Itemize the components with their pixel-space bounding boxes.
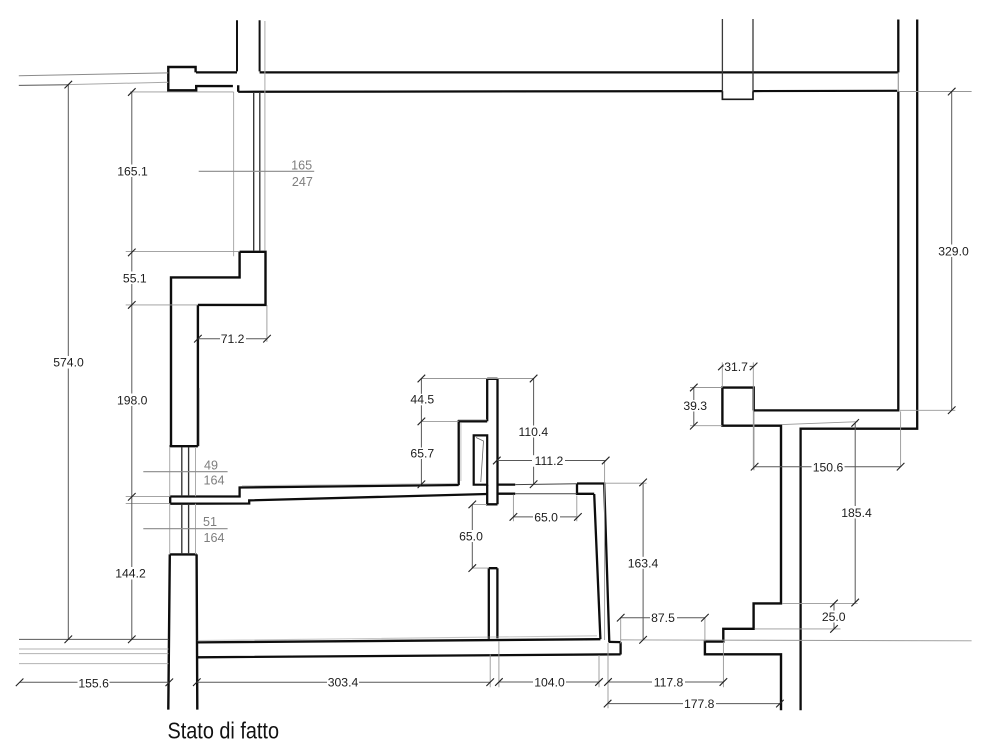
- extension lines: 44.5 110.4 top: [421, 379, 533, 422]
- svg-text:111.2: 111.2: [535, 454, 564, 468]
- extension lines: 31.7: [722, 362, 753, 469]
- party wall line upper: [19, 73, 169, 76]
- svg-text:55.1: 55.1: [123, 271, 147, 285]
- dim 65.0 upper: [513, 516, 578, 518]
- wall: chimney flue left of top wall: [237, 20, 260, 71]
- wall: top-right pillar jambs: [722, 19, 753, 91]
- dim 25.0: [833, 604, 835, 629]
- svg-text:165.1: 165.1: [117, 164, 148, 178]
- svg-text:164: 164: [203, 531, 224, 545]
- text 165.1: [117, 165, 148, 178]
- svg-text:65.0: 65.0: [534, 511, 558, 525]
- wall: spine wall right of cross with door opening: [498, 484, 606, 494]
- long reference line right: [621, 639, 972, 642]
- wall shadow echoes: [198, 388, 598, 641]
- dim 303.4 104.0 117.8: [197, 681, 724, 683]
- wall: top outer edge: [196, 71, 899, 73]
- wall: lower door stub: [489, 568, 498, 639]
- wall: interior spine wall left portion: [170, 485, 487, 504]
- text 329.0: [938, 245, 970, 258]
- wall: right inner face: [754, 20, 899, 411]
- svg-text:117.8: 117.8: [654, 675, 684, 689]
- fraction bar 51/164: [143, 528, 227, 530]
- extension lines: 71.2 right: [266, 305, 268, 342]
- svg-text:329.0: 329.0: [938, 244, 969, 258]
- wall: top-right pillar notch: [722, 91, 753, 99]
- text 44.5: [410, 394, 435, 406]
- text 163.4: [627, 557, 659, 569]
- svg-text:49: 49: [204, 459, 218, 473]
- wall: spine wall step up to closet: [459, 421, 488, 485]
- dim 31.7: [722, 365, 754, 367]
- svg-text:150.6: 150.6: [813, 461, 844, 475]
- dim left chain 165.1/55.1/198.0/144.2: [131, 92, 133, 639]
- text 144.2: [115, 567, 146, 580]
- wall: left wall upper step block: [170, 252, 266, 446]
- dim 329.0: [951, 92, 953, 411]
- svg-text:87.5: 87.5: [651, 611, 675, 625]
- wall: left wall lower block: [168, 554, 197, 709]
- svg-text:71.2: 71.2: [221, 332, 245, 346]
- party wall line lower light segment: [68, 82, 168, 84]
- extension lines: 25.0 and 185.4: [755, 422, 858, 629]
- door threshold: thin lines across opening: [515, 484, 577, 494]
- dim 177.8: [608, 703, 780, 705]
- svg-text:65.0: 65.0: [459, 530, 483, 544]
- extension lines: 111.2 and right room: [604, 461, 606, 641]
- dim 185.4: [854, 423, 856, 603]
- window 51/164 glazing: [182, 504, 189, 554]
- text 303.4: [327, 676, 359, 689]
- party wall line lower dark segment: [19, 84, 69, 87]
- dim 44.5/65.7 chain: [420, 379, 422, 485]
- extension lines: bottom dims: [490, 642, 723, 709]
- text 104.0: [533, 676, 566, 689]
- svg-text:25.0: 25.0: [822, 610, 846, 624]
- door leaf: closet door rectangle: [474, 435, 488, 484]
- text 65.7: [410, 448, 435, 460]
- text 65.0 left: [458, 530, 485, 542]
- svg-text:247: 247: [292, 175, 313, 189]
- text 71.2: [220, 333, 246, 345]
- svg-text:177.8: 177.8: [684, 697, 715, 711]
- wall: top-left pillar: [168, 67, 238, 92]
- svg-text:31.7: 31.7: [724, 360, 748, 374]
- text 39.3: [682, 400, 708, 412]
- dim 65.0 left vertical: [471, 504, 473, 568]
- dimension chain bottom reference line: [19, 638, 168, 640]
- extension lines: 163.4 top: [606, 482, 647, 484]
- extension lines: 329.0: [899, 92, 972, 411]
- ground reference lines bottom left: [19, 649, 168, 664]
- window jambs: thin gray faces: [170, 21, 265, 554]
- window 49/164 glazing: [182, 447, 189, 496]
- svg-text:110.4: 110.4: [519, 425, 549, 439]
- wall: right-mid pillar and stepped lower wall: [705, 388, 781, 711]
- tick marks: [16, 81, 956, 708]
- svg-text:198.0: 198.0: [117, 393, 148, 407]
- wall: bottom band: [197, 639, 621, 657]
- dim 163.4: [642, 482, 644, 639]
- text 117.8: [652, 676, 685, 689]
- text 198.0: [117, 394, 148, 407]
- svg-text:104.0: 104.0: [534, 675, 565, 689]
- svg-text:65.7: 65.7: [410, 446, 434, 460]
- wall: right outer face: [801, 20, 918, 711]
- svg-text:163.4: 163.4: [628, 556, 659, 570]
- text 111.2: [532, 455, 565, 467]
- dim 150.6: [755, 466, 901, 468]
- svg-text:39.3: 39.3: [683, 399, 707, 413]
- dim 111.2: [497, 460, 606, 462]
- text 87.5: [650, 612, 677, 624]
- fraction bar 49/164: [143, 471, 227, 473]
- dim 110.4: [533, 379, 535, 485]
- wall: top inner edge: [238, 91, 897, 92]
- text 150.6: [812, 461, 845, 473]
- svg-text:165: 165: [291, 158, 312, 172]
- text 110.4: [517, 426, 549, 438]
- svg-text:51: 51: [203, 515, 217, 529]
- svg-text:574.0: 574.0: [53, 356, 84, 370]
- wall: right inner face pass through top wall: [897, 72, 899, 91]
- text 25.0: [820, 611, 847, 623]
- extension lines: 87.5: [621, 618, 705, 644]
- dim 71.2: [198, 338, 267, 340]
- extension lines: 65.0 left: [472, 504, 489, 568]
- extension line y92 left: [130, 91, 234, 93]
- svg-text:Stato di fatto: Stato di fatto: [168, 717, 280, 743]
- dim 155.6: [20, 681, 170, 683]
- svg-text:155.6: 155.6: [78, 676, 109, 690]
- extension lines: 65.0 upper: [513, 495, 576, 522]
- dim 574.0: [67, 85, 69, 640]
- door leaf: swing lines: [476, 438, 484, 483]
- svg-text:44.5: 44.5: [410, 393, 434, 407]
- extension lines: 150.6: [754, 411, 901, 470]
- svg-text:144.2: 144.2: [115, 567, 146, 581]
- svg-text:185.4: 185.4: [841, 506, 872, 520]
- text 185.4: [840, 506, 873, 519]
- wall: slanted right wall of lower room: [594, 484, 609, 643]
- extension lines: 39.3: [690, 388, 722, 426]
- text 177.8: [683, 698, 716, 711]
- wall: central cross wall: [487, 379, 497, 505]
- extension lines left chain: [126, 251, 240, 503]
- dim 87.5: [621, 617, 705, 619]
- text 31.7: [724, 361, 750, 373]
- text 65.0 upper: [533, 511, 560, 523]
- text 55.1: [120, 272, 149, 285]
- text 155.6: [78, 677, 110, 689]
- dim 39.3: [693, 388, 695, 426]
- window 165/247 glazing: [254, 92, 260, 251]
- svg-text:164: 164: [203, 473, 224, 487]
- text 574.0: [53, 356, 84, 369]
- svg-text:303.4: 303.4: [328, 676, 359, 690]
- fraction bar 165/247: [199, 170, 315, 172]
